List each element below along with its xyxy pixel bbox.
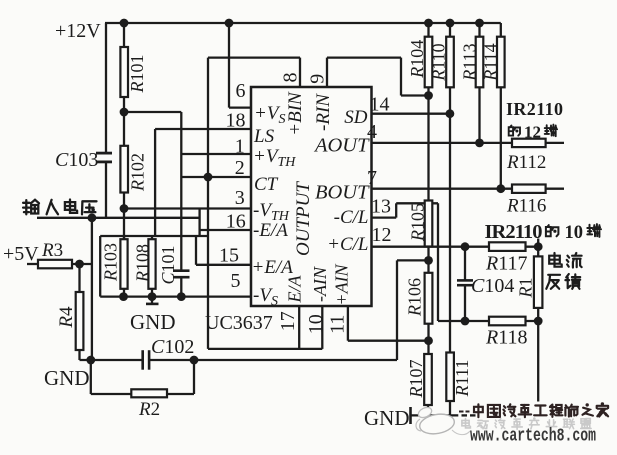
svg-text:R106: R106 xyxy=(405,278,425,317)
svg-text:R1: R1 xyxy=(516,278,536,299)
svg-text:-AIN: -AIN xyxy=(310,266,330,302)
svg-text:11: 11 xyxy=(327,315,349,334)
svg-text:13: 13 xyxy=(371,196,391,218)
svg-text:R112: R112 xyxy=(506,152,546,173)
svg-text:4: 4 xyxy=(367,121,377,143)
svg-text:10: 10 xyxy=(305,314,327,334)
svg-text:C101: C101 xyxy=(158,245,178,284)
svg-text:OUTPUT: OUTPUT xyxy=(293,181,314,256)
svg-text:R110: R110 xyxy=(429,43,449,81)
svg-text:12: 12 xyxy=(524,123,541,142)
svg-text:9: 9 xyxy=(307,74,329,84)
svg-text:-RIN: -RIN xyxy=(313,93,334,131)
svg-text:+C/L: +C/L xyxy=(327,234,368,255)
svg-text:LS: LS xyxy=(253,126,275,147)
svg-text:18: 18 xyxy=(226,110,246,132)
svg-text:+E/A: +E/A xyxy=(252,257,294,278)
svg-text:UC3637: UC3637 xyxy=(205,312,273,334)
svg-text:R116: R116 xyxy=(506,196,546,217)
svg-text:10: 10 xyxy=(565,223,584,243)
svg-text:-E/A: -E/A xyxy=(253,220,288,241)
svg-text:14: 14 xyxy=(370,94,390,116)
svg-text:R117: R117 xyxy=(485,253,527,275)
svg-text:R108: R108 xyxy=(133,244,153,283)
svg-text:GND: GND xyxy=(130,310,176,334)
svg-text:BOUT: BOUT xyxy=(315,182,370,204)
svg-text:15: 15 xyxy=(219,245,239,267)
svg-text:7: 7 xyxy=(367,167,377,189)
svg-text:-C/L: -C/L xyxy=(334,207,369,228)
svg-text:SD: SD xyxy=(344,107,368,128)
svg-text:R113: R113 xyxy=(460,43,480,81)
svg-text:GND: GND xyxy=(364,406,410,430)
svg-text:+VTH: +VTH xyxy=(253,146,296,170)
svg-text:E/A: E/A xyxy=(284,275,304,304)
svg-text:R4: R4 xyxy=(56,306,77,329)
svg-text:CT: CT xyxy=(254,174,279,195)
svg-text:R102: R102 xyxy=(128,153,148,192)
svg-text:AOUT: AOUT xyxy=(313,135,370,157)
svg-text:8: 8 xyxy=(280,73,302,83)
svg-text:R105: R105 xyxy=(408,203,428,242)
svg-text:+12V: +12V xyxy=(55,20,101,42)
svg-text:C104: C104 xyxy=(471,275,514,297)
svg-text:R114: R114 xyxy=(481,43,501,81)
svg-text:IR2110: IR2110 xyxy=(485,221,543,243)
svg-text:R103: R103 xyxy=(101,243,121,282)
svg-text:1: 1 xyxy=(235,136,245,158)
svg-text:-VS: -VS xyxy=(253,285,278,309)
svg-text:R2: R2 xyxy=(138,399,160,420)
svg-text:R104: R104 xyxy=(407,40,427,79)
svg-text:+BIN: +BIN xyxy=(285,91,306,136)
svg-text:16: 16 xyxy=(226,210,246,232)
svg-text:+VS: +VS xyxy=(254,103,285,127)
svg-text:GND: GND xyxy=(44,366,90,390)
svg-text:5: 5 xyxy=(231,270,241,292)
svg-text:R101: R101 xyxy=(127,55,147,94)
svg-text:C103: C103 xyxy=(55,149,98,171)
svg-text:C102: C102 xyxy=(151,336,194,358)
svg-text:12: 12 xyxy=(372,224,392,246)
svg-text:R118: R118 xyxy=(485,327,527,349)
svg-text:R3: R3 xyxy=(41,240,63,261)
svg-text:IR2110: IR2110 xyxy=(506,99,563,119)
svg-text:+5V: +5V xyxy=(3,243,39,265)
svg-text:R107: R107 xyxy=(406,360,426,399)
svg-text:www.cartech8.com: www.cartech8.com xyxy=(470,426,596,447)
svg-text:6: 6 xyxy=(236,80,246,102)
svg-text:R111: R111 xyxy=(452,360,472,398)
svg-text:3: 3 xyxy=(235,187,245,209)
svg-text:17: 17 xyxy=(277,311,299,331)
svg-text:+AIN: +AIN xyxy=(332,263,352,305)
svg-text:2: 2 xyxy=(235,157,245,179)
